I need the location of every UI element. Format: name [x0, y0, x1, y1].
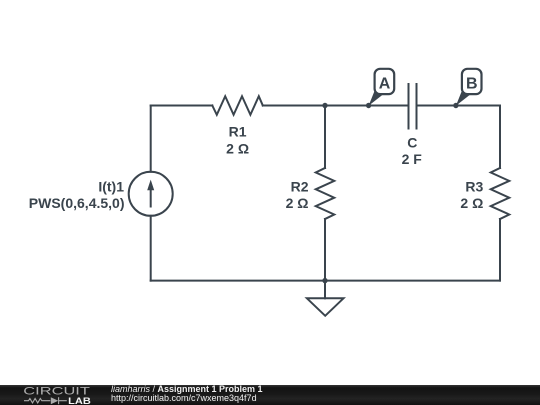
wire top-left from current source to R1: [151, 105, 213, 107]
svg-text:2 Ω: 2 Ω: [460, 195, 483, 211]
footer bar: [0, 385, 540, 405]
wire R2 to bottom junction: [324, 219, 326, 281]
wire middle branch top to R2: [324, 106, 326, 169]
node B junction dot: [453, 103, 458, 108]
current source I1 circle: [129, 172, 173, 216]
resistor R3: [491, 168, 510, 219]
CircuitLab logo resistor-diode glyph: [24, 397, 67, 404]
current source arrow head: [147, 180, 154, 191]
svg-text:A: A: [379, 75, 391, 92]
svg-text:B: B: [466, 75, 478, 92]
node B flag box: [462, 69, 482, 94]
wire capacitor right plate to node B to top-right corner: [417, 105, 501, 107]
wire left branch top down to current source: [150, 106, 152, 172]
junction dot at R1/R2 node: [322, 103, 327, 108]
wire right branch down to R3: [499, 106, 501, 169]
svg-text:2 F: 2 F: [402, 151, 423, 167]
svg-text:R1: R1: [229, 124, 247, 140]
capacitor C plates: [409, 84, 417, 129]
svg-text:I(t)1: I(t)1: [98, 179, 124, 195]
svg-text:2 Ω: 2 Ω: [286, 195, 309, 211]
wire current source to bottom-left corner: [150, 216, 152, 281]
node A junction dot: [366, 103, 371, 108]
svg-text:R2: R2: [291, 179, 309, 195]
svg-text:2 Ω: 2 Ω: [226, 140, 249, 156]
svg-text:C: C: [407, 135, 417, 151]
wire R1 to node A and capacitor left plate: [263, 105, 409, 107]
node A flag box: [375, 69, 395, 94]
svg-text:R3: R3: [465, 179, 483, 195]
footer url line: [111, 394, 257, 403]
svg-text:PWS(0,6,4.5,0): PWS(0,6,4.5,0): [29, 195, 125, 211]
resistor R1: [212, 96, 262, 115]
ground symbol triangle: [307, 298, 344, 316]
current source arrow shaft: [150, 187, 152, 207]
svg-text:LAB: LAB: [68, 395, 91, 405]
wire R3 to bottom-right corner: [499, 219, 501, 281]
node A flag pointer: [369, 90, 383, 106]
wire bottom rail: [151, 280, 500, 282]
wire ground stub: [324, 281, 326, 299]
node B flag pointer: [456, 90, 470, 106]
junction dot at ground node: [322, 278, 327, 283]
resistor R2: [316, 168, 335, 219]
footer title line: [111, 385, 263, 394]
